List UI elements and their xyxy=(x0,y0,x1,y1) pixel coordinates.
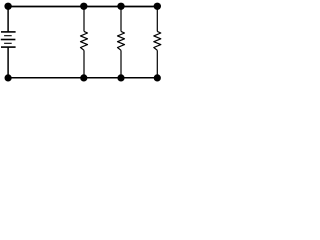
battery BT1 plate short lower xyxy=(4,42,12,44)
wire R1 top lead xyxy=(83,7,85,32)
wire R2 top lead xyxy=(120,7,122,32)
node bottom-left junction xyxy=(5,74,12,81)
battery BT1 plate long bottom xyxy=(1,46,16,48)
wire R3 bottom lead xyxy=(156,50,158,77)
resistor R3 zigzag xyxy=(154,31,161,50)
battery BT1 plate short upper xyxy=(4,35,12,37)
wire bottom rail xyxy=(8,77,157,79)
battery BT1 plate long top xyxy=(1,31,16,33)
resistor R2 zigzag xyxy=(118,31,125,50)
battery BT1 plate long middle xyxy=(1,39,16,41)
wire top rail xyxy=(8,6,157,8)
node top R2 junction xyxy=(117,3,124,10)
wire R1 bottom lead xyxy=(83,50,85,77)
wire left rail lower segment xyxy=(7,47,9,78)
node top-right junction xyxy=(154,3,161,10)
wire R3 top lead xyxy=(156,7,158,32)
node bottom R2 junction xyxy=(117,74,124,81)
resistor R1 zigzag xyxy=(81,31,88,50)
node top-left junction xyxy=(4,3,11,10)
node bottom-right junction xyxy=(154,74,161,81)
wire R2 bottom lead xyxy=(120,50,122,77)
node bottom R1 junction xyxy=(80,74,87,81)
node top R1 junction xyxy=(80,3,87,10)
wire left rail upper segment xyxy=(7,7,9,33)
